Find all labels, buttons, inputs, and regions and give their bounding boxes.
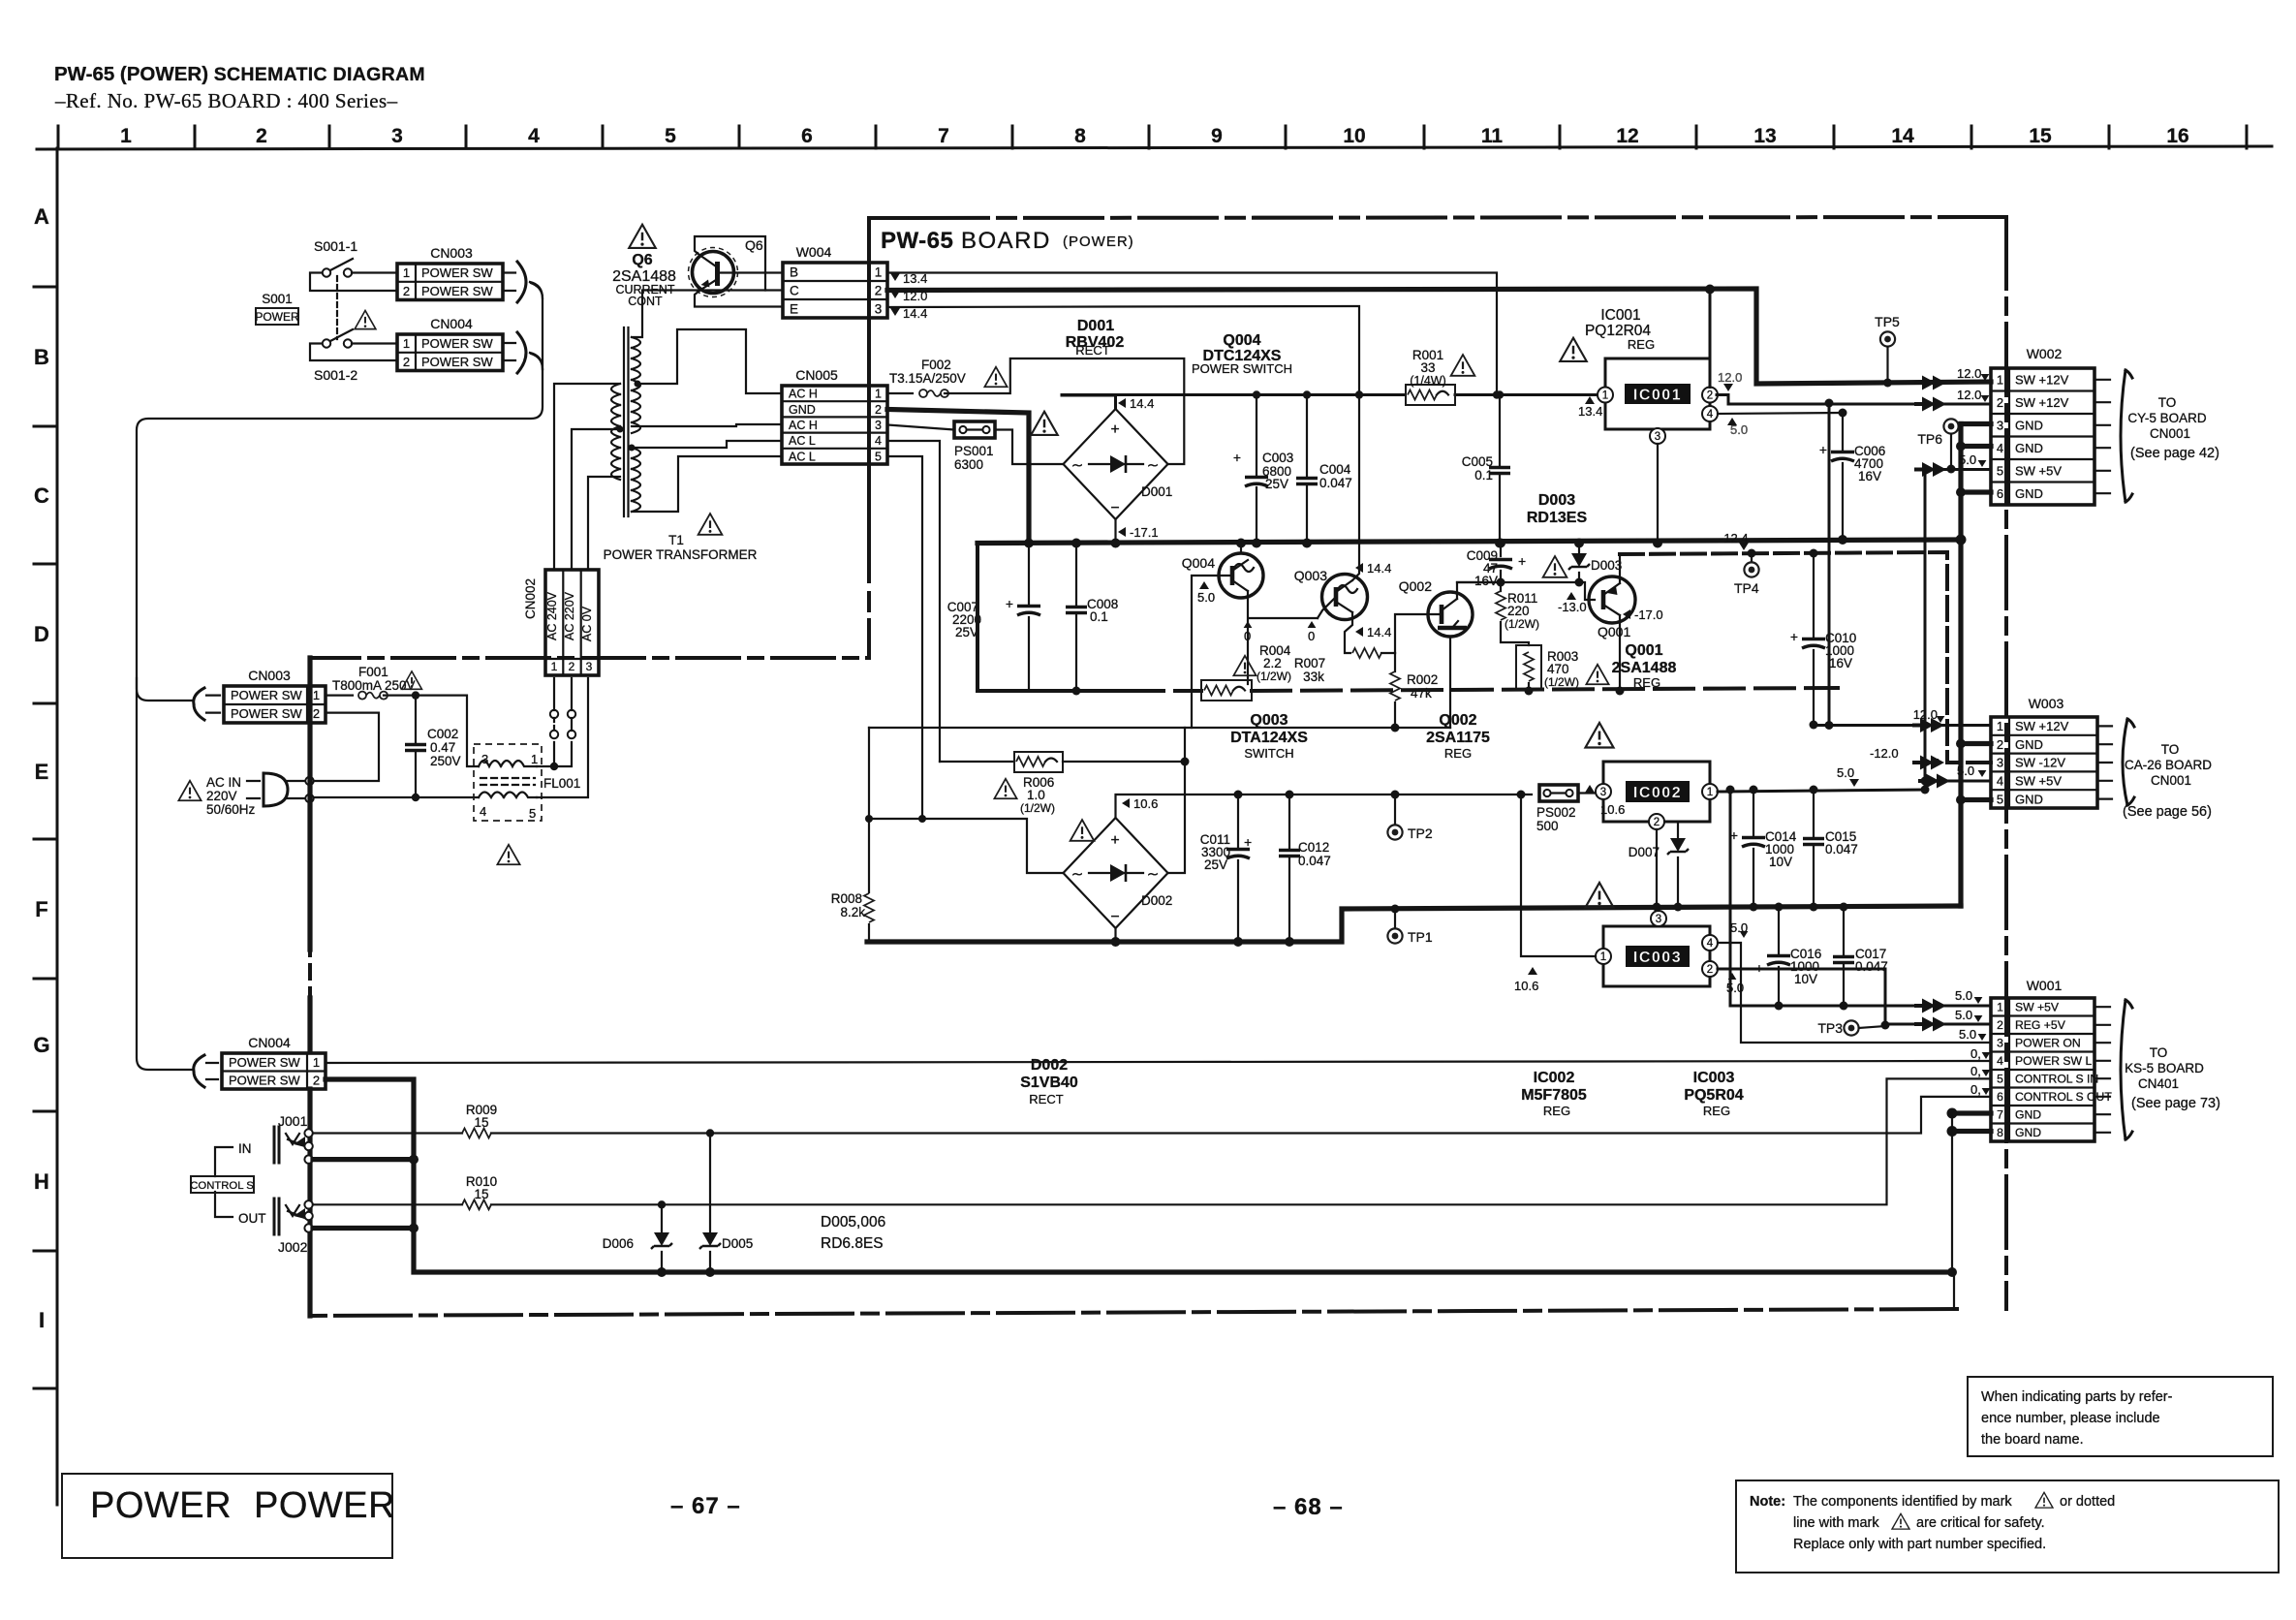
svg-text:(See page 42): (See page 42) <box>2130 446 2219 461</box>
svg-text:CN004: CN004 <box>248 1035 291 1050</box>
svg-text:–Ref. No. PW-65 BOARD : 400 Se: –Ref. No. PW-65 BOARD : 400 Series– <box>54 89 398 112</box>
svg-text:1: 1 <box>1600 951 1606 963</box>
W002 right bracket <box>2094 380 2110 493</box>
svg-text:10.6: 10.6 <box>1514 979 1538 993</box>
resistor R007 <box>1352 648 1381 658</box>
svg-text:0,: 0, <box>1970 1082 1981 1097</box>
svg-text:Q001: Q001 <box>1598 624 1630 639</box>
svg-text:D006: D006 <box>603 1236 634 1251</box>
svg-text:25V: 25V <box>1204 857 1227 872</box>
svg-text:-12.0: -12.0 <box>1870 746 1899 761</box>
svg-text:PS001: PS001 <box>954 444 994 458</box>
thermal fuse PS002 <box>1539 785 1578 801</box>
svg-text:0,: 0, <box>1970 1046 1981 1061</box>
grid ruler left line <box>56 148 59 1505</box>
capacitor C006 <box>1842 413 1844 540</box>
IC002 regulator <box>1603 762 1710 822</box>
Q6 emitter wire <box>695 291 783 307</box>
resistor R006 <box>940 761 1014 763</box>
svg-text:IC001: IC001 <box>1633 388 1682 404</box>
svg-text:D001: D001 <box>1141 484 1172 499</box>
-12.4 marker <box>1739 543 1749 550</box>
grid ruler top line <box>37 146 2272 149</box>
svg-text:−: − <box>1110 500 1119 516</box>
svg-text:15: 15 <box>474 1187 488 1201</box>
svg-text:1: 1 <box>1997 719 2003 733</box>
svg-text:0.047: 0.047 <box>1319 476 1352 490</box>
svg-text:1: 1 <box>1707 787 1713 798</box>
svg-text:TP2: TP2 <box>1408 826 1433 841</box>
svg-text:TO: TO <box>2158 395 2177 410</box>
svg-text:line with mark: line with mark <box>1793 1515 1879 1531</box>
svg-text:Q6: Q6 <box>745 237 763 253</box>
svg-text:2: 2 <box>313 1073 320 1087</box>
line filter FL001 <box>474 744 542 821</box>
D001 + output riser <box>1062 395 1116 409</box>
capacitor C002 <box>415 696 417 797</box>
svg-text:GND: GND <box>2015 792 2043 806</box>
svg-text:3: 3 <box>586 660 593 673</box>
svg-text:When indicating parts by r: When indicating parts by refer- <box>1981 1389 2173 1405</box>
transistor Q6 <box>693 252 734 294</box>
svg-text:4: 4 <box>1997 774 2003 789</box>
svg-text:W002: W002 <box>2027 346 2063 361</box>
svg-text:2: 2 <box>403 355 410 369</box>
Q001 collector down <box>1619 615 1621 691</box>
svg-text:POWER SW: POWER SW <box>421 336 493 351</box>
svg-text:+: + <box>1110 421 1119 438</box>
svg-text:250V: 250V <box>430 754 461 768</box>
svg-text:2: 2 <box>256 125 267 147</box>
svg-text:POWER SW: POWER SW <box>421 284 493 298</box>
svg-text:4: 4 <box>528 125 540 147</box>
svg-text:J001: J001 <box>278 1113 308 1129</box>
svg-text:+: + <box>1790 629 1798 644</box>
AC IN plug <box>264 773 288 806</box>
svg-text:PW-65: PW-65 <box>881 228 953 254</box>
capacitor C009 <box>1500 544 1502 583</box>
svg-text:TO: TO <box>2161 742 2180 757</box>
connector CN005 <box>782 386 887 464</box>
svg-text:POWER SW: POWER SW <box>421 355 493 369</box>
svg-text:C012: C012 <box>1298 840 1329 855</box>
svg-text:S001-2: S001-2 <box>314 367 357 383</box>
svg-text:– 68 –: – 68 – <box>1273 1494 1344 1520</box>
svg-text:3: 3 <box>1997 418 2003 432</box>
svg-text:5.0: 5.0 <box>1957 763 1974 778</box>
svg-text:DTA124XS: DTA124XS <box>1230 730 1308 746</box>
CONTROL S label + bracket <box>215 1147 233 1217</box>
svg-text:12.0: 12.0 <box>1957 388 1981 402</box>
svg-text:13: 13 <box>1753 125 1776 147</box>
svg-text:Q002: Q002 <box>1439 712 1476 729</box>
svg-text:Q004: Q004 <box>1182 555 1215 571</box>
svg-text:12: 12 <box>1616 125 1638 147</box>
svg-text:CN401: CN401 <box>2138 1076 2179 1091</box>
svg-text:13.4: 13.4 <box>1578 404 1602 419</box>
wires FL001 right to CN002 <box>537 678 588 797</box>
svg-text:W004: W004 <box>796 244 832 260</box>
svg-text:10V: 10V <box>1769 855 1792 869</box>
GND stubs W001 pins7/8 <box>1952 1113 1991 1132</box>
test point TP2 <box>1394 794 1396 824</box>
voltage selector contacts below CN002 <box>550 710 558 718</box>
loop right vertical to D002 <box>1168 728 1185 873</box>
svg-text:-13.0: -13.0 <box>1558 600 1587 614</box>
svg-text:Q002: Q002 <box>1399 578 1432 594</box>
svg-text:IC002: IC002 <box>1534 1070 1575 1086</box>
GND bus heavy <box>977 540 1961 544</box>
svg-text:CN001: CN001 <box>2150 426 2190 441</box>
svg-text:POWER SW L: POWER SW L <box>2015 1054 2092 1068</box>
test point TP1 <box>1394 909 1396 927</box>
svg-text:TP4: TP4 <box>1734 580 1759 596</box>
svg-text:-17.1: -17.1 <box>1130 525 1159 540</box>
svg-text:D002: D002 <box>1031 1057 1068 1074</box>
transistor Q001 <box>1589 576 1635 623</box>
svg-text:1: 1 <box>313 688 320 702</box>
Q004 base wire 5.0 <box>1192 576 1232 728</box>
svg-text:POWER: POWER <box>254 1485 395 1526</box>
svg-text:15: 15 <box>474 1115 488 1130</box>
capacitor C014 <box>1753 790 1754 907</box>
connector W003 <box>1991 717 2097 808</box>
svg-text:G: G <box>33 1033 49 1057</box>
svg-text:W001: W001 <box>2027 978 2063 993</box>
svg-text:4: 4 <box>1997 1054 2003 1068</box>
test point TP3 <box>1844 1020 1858 1035</box>
svg-text:Q001: Q001 <box>1625 642 1662 659</box>
svg-text:4: 4 <box>1707 938 1714 950</box>
svg-text:5: 5 <box>875 450 882 463</box>
SW +5V line to W001 pin1 <box>1730 790 1991 1006</box>
svg-text:14.4: 14.4 <box>1367 561 1391 576</box>
svg-text:D001: D001 <box>1077 318 1114 334</box>
svg-text:SW -12V: SW -12V <box>2015 756 2065 770</box>
T1 primary taps to CN002 <box>554 384 620 570</box>
fuse F001 <box>326 694 353 696</box>
svg-text:CY-5 BOARD: CY-5 BOARD <box>2127 411 2207 425</box>
transistor Q002 <box>1428 592 1473 637</box>
svg-text:BOARD: BOARD <box>961 228 1051 254</box>
svg-text:KS-5 BOARD: KS-5 BOARD <box>2125 1061 2204 1075</box>
svg-text:AC H: AC H <box>789 419 818 432</box>
svg-text:2: 2 <box>1997 1018 2003 1032</box>
IC003 pin2 output 5.0 REG <box>1718 969 1991 1024</box>
svg-text:are critical for safety.: are critical for safety. <box>1916 1515 2045 1531</box>
svg-text:GND: GND <box>2015 441 2043 455</box>
svg-text:PQ5R04: PQ5R04 <box>1684 1087 1743 1104</box>
svg-text:33: 33 <box>1420 360 1435 375</box>
IC001 pin3 to GND bus <box>1657 444 1659 544</box>
svg-text:2: 2 <box>1997 737 2003 752</box>
svg-text:∼: ∼ <box>1147 457 1160 474</box>
svg-text:(See page 56): (See page 56) <box>2123 804 2212 820</box>
svg-text:CN002: CN002 <box>523 578 538 619</box>
svg-text:or dotted: or dotted <box>2060 1494 2115 1510</box>
transistor Q003 <box>1322 575 1368 620</box>
svg-text:SW +12V: SW +12V <box>2015 372 2069 387</box>
svg-text:0.047: 0.047 <box>1855 959 1888 974</box>
IC002 pin1 5.0 output <box>1718 790 1925 792</box>
T1 power transformer core <box>624 327 629 516</box>
svg-text:2: 2 <box>1654 817 1660 828</box>
svg-text:16V: 16V <box>1474 574 1498 588</box>
svg-text:2.2: 2.2 <box>1263 656 1282 670</box>
IC003 regulator <box>1603 926 1710 986</box>
svg-text:POWER SW: POWER SW <box>231 688 302 702</box>
svg-text:Note:: Note: <box>1750 1494 1785 1510</box>
resistor R008 <box>864 893 874 922</box>
svg-text:POWER SW: POWER SW <box>231 706 302 721</box>
svg-text:C: C <box>790 283 799 297</box>
svg-text:IC001: IC001 <box>1600 307 1640 324</box>
CN004 top bracket <box>503 343 515 360</box>
resistor R003 (boxed) <box>1516 645 1541 690</box>
svg-text:D: D <box>34 622 49 646</box>
svg-text:GND: GND <box>2015 1126 2041 1139</box>
svg-text:REG: REG <box>1628 337 1655 352</box>
svg-text:(1/4W): (1/4W) <box>1410 374 1446 388</box>
svg-text:CN004: CN004 <box>430 316 473 331</box>
Q002 emitter to loop / collector up <box>1450 582 1501 728</box>
Q6 collector wire <box>695 236 783 291</box>
T1 secondary coil upper <box>632 337 640 433</box>
svg-text:9: 9 <box>1211 125 1223 147</box>
capacitor C003 <box>1256 395 1257 544</box>
svg-text:CA-26 BOARD: CA-26 BOARD <box>2125 758 2212 772</box>
svg-text:FL001: FL001 <box>543 776 580 791</box>
svg-text:1: 1 <box>875 388 882 401</box>
svg-text:S1VB40: S1VB40 <box>1020 1075 1078 1091</box>
svg-text:5.0: 5.0 <box>1959 452 1976 467</box>
svg-text:∼: ∼ <box>1147 866 1160 883</box>
svg-text:5.0: 5.0 <box>1197 590 1215 605</box>
zener diode D007 <box>1677 824 1679 907</box>
svg-text:2SA1175: 2SA1175 <box>1426 730 1490 746</box>
svg-text:+: + <box>1233 450 1241 465</box>
capacitor C017 <box>1843 907 1845 1006</box>
D002 + output 10.6 line <box>1116 794 1533 818</box>
AC wire into D002 <box>869 819 1064 873</box>
svg-text:AC 220V: AC 220V <box>563 591 576 640</box>
svg-text:1: 1 <box>875 265 883 279</box>
IC001 pin4 wire 5.0 <box>1718 413 1843 414</box>
connector W002 <box>1991 368 2094 505</box>
svg-text:2: 2 <box>1707 390 1713 402</box>
svg-text:W003: W003 <box>2029 696 2064 711</box>
svg-text:5.0: 5.0 <box>1837 765 1854 780</box>
-12.4 dashed rail to W003 pin3 <box>1620 552 1991 763</box>
svg-text:M5F7805: M5F7805 <box>1521 1087 1587 1104</box>
svg-text:220: 220 <box>1507 604 1530 618</box>
svg-text:IN: IN <box>238 1141 252 1156</box>
svg-text:0.1: 0.1 <box>1090 609 1108 624</box>
svg-text:POWER: POWER <box>90 1485 232 1526</box>
svg-text:5: 5 <box>529 806 536 821</box>
svg-text:5: 5 <box>1997 463 2003 478</box>
svg-text:7: 7 <box>938 125 949 147</box>
svg-text:14: 14 <box>1891 125 1914 147</box>
svg-text:6: 6 <box>801 125 813 147</box>
J001 sleeve heavy wire <box>313 1157 414 1162</box>
svg-text:CN003: CN003 <box>430 245 473 261</box>
svg-text:7: 7 <box>1997 1108 2003 1122</box>
connector CN002 <box>545 570 599 675</box>
test point TP5 <box>1880 331 1895 346</box>
capacitor C007 <box>1028 544 1030 692</box>
IC001 regulator <box>1605 358 1710 429</box>
svg-text:1: 1 <box>1997 372 2003 387</box>
svg-text:1: 1 <box>551 660 558 673</box>
svg-text:AC IN: AC IN <box>206 775 241 790</box>
svg-text:IC002: IC002 <box>1633 785 1682 801</box>
svg-text:14.4: 14.4 <box>903 306 927 321</box>
svg-text:TO: TO <box>2150 1045 2168 1060</box>
svg-text:B: B <box>34 345 49 369</box>
svg-text:D007: D007 <box>1629 845 1660 859</box>
capacitor C012 <box>1288 794 1290 942</box>
AC line lower to FL001 <box>310 796 480 798</box>
IC003 pin4 output 5.0 to POWER ON <box>1718 943 1991 1043</box>
Q003 collector from 14.4 rail <box>1352 395 1359 581</box>
svg-text:5: 5 <box>1997 1073 2003 1086</box>
svg-text:1: 1 <box>403 265 410 280</box>
CN004 pin1 long wire to W001 POWER SW L <box>326 1061 1991 1063</box>
svg-text:F: F <box>35 897 47 921</box>
svg-text:AC L: AC L <box>789 434 816 448</box>
svg-text:RECT: RECT <box>1075 343 1109 358</box>
wire R009 line (control s in) <box>313 1132 462 1134</box>
svg-text:-17.0: -17.0 <box>1634 607 1663 622</box>
CN005 AC L risers <box>887 441 940 762</box>
svg-text:1: 1 <box>120 125 132 147</box>
svg-text:∼: ∼ <box>1071 457 1084 474</box>
svg-text:SW +5V: SW +5V <box>2015 1001 2060 1014</box>
note box: safety mark <box>1736 1480 2279 1573</box>
capacitor C015 <box>1813 790 1815 907</box>
IC003 pin1 input 10.6 <box>1521 794 1596 956</box>
svg-text:16: 16 <box>2166 125 2188 147</box>
svg-text:POWER SW: POWER SW <box>421 265 493 280</box>
svg-text:AC 240V: AC 240V <box>545 591 559 640</box>
svg-text:J002: J002 <box>278 1239 308 1255</box>
svg-text:2: 2 <box>1707 964 1713 976</box>
svg-text:F002: F002 <box>921 358 951 372</box>
svg-text:25V: 25V <box>1265 477 1288 491</box>
svg-text:E: E <box>35 760 49 784</box>
resistor R011 <box>1501 582 1529 645</box>
resistor R001 <box>1406 385 1455 405</box>
svg-text:A: A <box>34 204 49 229</box>
connector CN003 (top) <box>397 264 503 300</box>
svg-text:3: 3 <box>1655 431 1660 443</box>
svg-text:1: 1 <box>1997 1001 2003 1014</box>
svg-text:3: 3 <box>391 125 403 147</box>
svg-text:the board name.: the board name. <box>1981 1432 2084 1448</box>
svg-text:8.2k: 8.2k <box>840 905 865 919</box>
svg-text:C: C <box>34 483 49 508</box>
svg-text:SW +12V: SW +12V <box>2015 395 2069 410</box>
svg-text:D005,006: D005,006 <box>821 1214 885 1231</box>
svg-text:D003: D003 <box>1538 492 1575 509</box>
svg-text:0.047: 0.047 <box>1825 842 1858 857</box>
svg-text:33k: 33k <box>1303 670 1324 684</box>
svg-text:IC003: IC003 <box>1633 950 1682 966</box>
svg-text:POWER TRANSFORMER: POWER TRANSFORMER <box>604 547 758 562</box>
svg-text:R007: R007 <box>1294 656 1325 670</box>
svg-text:POWER SW: POWER SW <box>229 1073 300 1087</box>
svg-text:PW-65 (POWER) SCHEMATIC DIAGRA: PW-65 (POWER) SCHEMATIC DIAGRAM <box>54 63 425 85</box>
svg-text:F001: F001 <box>358 665 388 679</box>
transistor Q004 <box>1219 553 1263 598</box>
svg-text:POWER: POWER <box>255 310 299 324</box>
svg-text:8: 8 <box>1997 1126 2003 1139</box>
svg-text:R008: R008 <box>831 891 862 906</box>
svg-text:RECT: RECT <box>1029 1092 1063 1106</box>
svg-text:GND: GND <box>2015 418 2043 432</box>
svg-text:REG: REG <box>1543 1104 1570 1118</box>
bridge rectifier D002 <box>1064 818 1168 928</box>
wire -13.0 node to Q001 base <box>1457 582 1595 600</box>
bridge rectifier D001 <box>1064 409 1168 519</box>
svg-text:Q004: Q004 <box>1223 332 1260 349</box>
svg-text:+: + <box>1110 832 1119 849</box>
Q004 emitter + 0 marker <box>1248 591 1318 684</box>
IC002 pin2 to GND line <box>1656 829 1658 907</box>
T1 primary coil <box>611 384 620 480</box>
svg-text:REG +5V: REG +5V <box>2015 1018 2066 1032</box>
svg-text:1: 1 <box>403 336 410 351</box>
svg-text:470: 470 <box>1547 662 1569 676</box>
svg-text:0: 0 <box>1308 629 1315 643</box>
GND riser W002/W003 <box>1958 424 1963 907</box>
S001 dashed link <box>336 276 338 339</box>
-17.1 rail (dashed critical) <box>977 544 1125 692</box>
svg-text:D002: D002 <box>1141 893 1172 908</box>
svg-text:2: 2 <box>875 403 882 417</box>
svg-text:0,: 0, <box>1970 1064 1981 1078</box>
connector CN004 (lower) <box>222 1053 326 1089</box>
svg-text:2: 2 <box>313 706 320 721</box>
W004 pin1 wire 13.4 <box>887 273 1497 395</box>
capacitor C008 <box>1075 544 1077 692</box>
svg-text:10: 10 <box>1343 125 1365 147</box>
J002 sleeve heavy wire <box>313 1226 414 1231</box>
test point TP4 <box>1751 553 1753 562</box>
W004 pin3 wire 14.4 <box>887 306 1359 395</box>
svg-text:REG: REG <box>1444 746 1472 761</box>
svg-text:1: 1 <box>1602 390 1608 402</box>
svg-text:– 67 –: – 67 – <box>670 1493 741 1519</box>
test point TP6 <box>1943 419 1958 433</box>
svg-text:The components identified by m: The components identified by mark <box>1793 1494 2012 1510</box>
svg-text:AC H: AC H <box>789 388 818 401</box>
svg-text:∼: ∼ <box>1071 866 1084 883</box>
svg-text:12.0: 12.0 <box>903 289 927 303</box>
svg-text:(POWER): (POWER) <box>1063 234 1134 250</box>
svg-text:PS002: PS002 <box>1536 805 1576 820</box>
svg-text:(See page 73): (See page 73) <box>2131 1096 2220 1111</box>
svg-text:S001-1: S001-1 <box>314 238 357 254</box>
svg-text:IC003: IC003 <box>1693 1070 1735 1086</box>
svg-text:GND: GND <box>2015 737 2043 752</box>
resistor R002 <box>1394 653 1396 728</box>
svg-text:CONT: CONT <box>628 295 663 308</box>
arrows on W003 wires <box>1912 718 1944 732</box>
svg-text:T3.15A/250V: T3.15A/250V <box>889 371 966 386</box>
svg-text:0.47: 0.47 <box>430 740 455 755</box>
